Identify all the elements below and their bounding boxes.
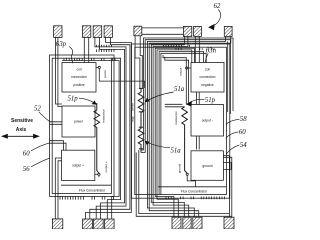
wire B4 to B5 a — [196, 92, 198, 105]
wire output plus circle stub down — [98, 175, 100, 177]
wire right inner pair a — [163, 55, 186, 105]
svg-text:connection: connection — [200, 75, 216, 79]
wire trace C outer — [107, 58, 120, 219]
wire B4 left stub trace a — [155, 48, 194, 217]
svg-text:output +: output + — [104, 161, 108, 172]
junction bar lower resistor bottom — [139, 148, 143, 150]
pad top group B — [93, 26, 102, 38]
svg-text:52: 52 — [34, 106, 41, 113]
pad bottom-right corner — [224, 217, 234, 229]
wire B4 to B5 b — [198, 92, 200, 105]
terminal circle power — [98, 66, 100, 68]
wire far right trace outer — [141, 38, 233, 150]
wire B4 left stub trace b — [157, 50, 192, 217]
box power — [62, 106, 95, 137]
wire stem pad TL2 b — [88, 37, 90, 62]
wire stem pad TL1 b — [58, 37, 62, 106]
box ground — [191, 151, 223, 181]
pad top group C — [104, 26, 112, 38]
pad top-right single — [134, 26, 142, 36]
wire center lower pair b — [139, 150, 230, 214]
box coil connection positive — [62, 63, 96, 93]
svg-text:resistance: resistance — [102, 109, 106, 123]
svg-text:positive: positive — [73, 83, 84, 87]
svg-text:power: power — [74, 120, 84, 124]
svg-text:output +: output + — [72, 163, 84, 167]
wire stem pad TR3 b — [198, 36, 200, 62]
B6 right tab — [223, 163, 231, 170]
svg-text:58: 58 — [240, 116, 247, 123]
wire coil cross corridor — [99, 69, 144, 89]
terminal stub power — [96, 66, 98, 68]
resistor 51a lower center — [138, 125, 144, 153]
box coil connection negative — [191, 63, 224, 93]
svg-text:51p: 51p — [68, 96, 79, 103]
svg-text:54: 54 — [240, 142, 247, 149]
wire B4 top stub trace b — [161, 53, 206, 194]
wire output plus to bottom pad a — [55, 158, 61, 219]
wire over right pads b — [142, 33, 184, 35]
wire 60 pair — [50, 141, 67, 151]
wire trace C inner — [62, 61, 119, 219]
svg-text:ground: ground — [177, 163, 181, 173]
wire stem pad TR4 b — [149, 36, 231, 217]
wire B5 to B6 a — [196, 136, 198, 150]
crossing rungs band 1 — [97, 45, 112, 47]
pad bottom group C — [105, 219, 115, 229]
svg-text:60: 60 — [23, 150, 30, 157]
wire B4 top stub trace a — [159, 52, 204, 195]
svg-text:output -: output - — [178, 66, 182, 76]
pad bottom-right group A — [172, 217, 181, 229]
wire far right trace inner — [141, 40, 230, 153]
left flux concentrator rect — [52, 58, 111, 193]
crossing rungs band 2 — [97, 49, 115, 52]
resistor 51p left stub — [95, 111, 97, 113]
bottom rung band right — [166, 197, 225, 200]
wire output plus to bottom pad b — [58, 161, 62, 219]
resistor 51a upper center — [138, 88, 144, 125]
svg-text:60: 60 — [239, 129, 246, 136]
wire trace A outer — [85, 37, 131, 219]
svg-text:Axis: Axis — [16, 127, 27, 133]
pad bottom group A — [83, 219, 93, 229]
wire center resistor join — [139, 87, 143, 89]
resistor 51p left — [94, 103, 100, 173]
svg-text:51p: 51p — [205, 97, 216, 104]
wire trace B outer — [95, 37, 126, 219]
wire stem pad TL1 a — [56, 37, 63, 104]
junction bar lower resistor top — [139, 126, 143, 128]
left die outer rect — [50, 55, 115, 196]
wire center lower pair a — [136, 153, 232, 217]
wire stem pad TR3 a — [194, 36, 196, 62]
wire B6 to corner pad a — [223, 156, 229, 218]
left flux concentrator strip — [61, 184, 111, 186]
resistor 51p right — [182, 107, 188, 173]
wire stem pad TR1 a — [135, 36, 140, 88]
pad bottom-right group C — [193, 217, 202, 229]
wire right edge extra — [227, 41, 229, 112]
wire trace B inner — [100, 37, 125, 219]
pad top-left single — [54, 26, 62, 38]
svg-text:Flux Concentrator: Flux Concentrator — [79, 188, 106, 192]
svg-text:56: 56 — [23, 166, 30, 173]
pad top-right pair B — [194, 26, 202, 36]
wire trace A inner — [90, 37, 130, 219]
svg-text:51a: 51a — [174, 86, 185, 93]
svg-text:connection: connection — [71, 75, 87, 79]
svg-text:coil: coil — [77, 67, 82, 71]
crossing rungs band right — [176, 48, 214, 50]
junction bar upper resistor bottom — [139, 111, 143, 113]
pad top-right pair A — [183, 26, 191, 36]
crossing rungs band right top edge — [163, 45, 189, 47]
wire over right pads a — [142, 27, 184, 29]
wire ground circle down — [187, 175, 195, 186]
terminal circle ground — [186, 173, 188, 175]
terminal circle output minus — [186, 67, 188, 69]
top rung band inner edge — [64, 58, 115, 60]
pad bottom-left single — [52, 219, 62, 229]
pad top-right corner — [224, 26, 232, 36]
box output plus — [62, 150, 95, 180]
svg-text:Sensitive: Sensitive — [11, 118, 33, 124]
bottom rung band left — [60, 197, 114, 200]
wire stem pad TR2 b — [153, 36, 189, 217]
svg-text:coil: coil — [205, 67, 210, 71]
svg-text:output -: output - — [202, 119, 213, 123]
pad bottom-right group B — [183, 217, 191, 229]
wire B6 to corner pad b — [223, 157, 231, 217]
box output minus — [191, 105, 224, 137]
pad top group A — [83, 26, 91, 38]
wire resistor right top joins — [165, 104, 185, 107]
wire right inner pair b — [165, 57, 189, 105]
svg-text:Flux Concentrator: Flux Concentrator — [181, 189, 208, 193]
wire stem pad TR1 b — [140, 36, 142, 88]
svg-text:resistance: resistance — [174, 111, 178, 125]
wire B5 to B6 b — [198, 136, 200, 150]
svg-text:power: power — [103, 70, 107, 78]
terminal circle output plus — [98, 173, 100, 175]
svg-text:51a: 51a — [171, 147, 182, 154]
wire stem pad TR4 a — [147, 36, 225, 217]
pad bottom group B — [94, 219, 104, 229]
terminal stub output plus — [95, 173, 98, 175]
svg-text:ground: ground — [202, 164, 212, 168]
svg-text:63n: 63n — [206, 48, 217, 55]
wire stem pad TL2 a — [83, 37, 85, 62]
svg-text:63p: 63p — [56, 41, 67, 48]
right flux concentrator rect — [135, 47, 227, 194]
wire 52 pair — [50, 122, 63, 125]
svg-text:negative: negative — [201, 83, 214, 87]
right die outer rect — [132, 44, 230, 198]
sensitive axis arrow — [6, 135, 37, 137]
wire stem pad TR2 a — [151, 36, 184, 217]
terminal stub output minus — [188, 67, 191, 69]
svg-text:62: 62 — [214, 3, 221, 10]
right flux concentrator strip — [158, 186, 226, 188]
